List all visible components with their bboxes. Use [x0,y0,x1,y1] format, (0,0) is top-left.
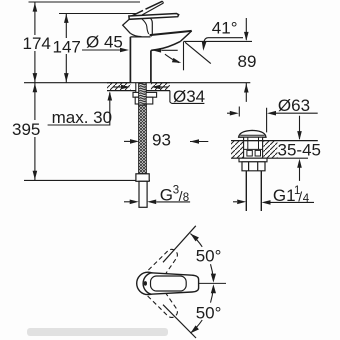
hose tube [139,181,147,207]
deck right step to label [170,91,172,104]
lever handle (solid) [129,14,179,20]
outlet vertical ext [183,42,185,71]
svg-text:41°: 41° [212,19,238,38]
washer [133,92,157,97]
ext line 147 top (y=13.5) [59,13,137,15]
deck ext line (y=82.7) [24,82,250,84]
threaded rod [139,83,147,105]
svg-text:Ø63: Ø63 [278,96,310,115]
solid lever top view [137,272,159,294]
lever butt cap [123,19,131,33]
svg-text:50°: 50° [196,303,222,322]
lower arc [211,288,214,303]
svg-text:8: 8 [183,192,189,204]
svg-text:35-45: 35-45 [278,141,321,160]
spout arc arrow [165,54,179,62]
spout [150,31,192,35]
ext line top (y=2) [29,1,141,3]
arrowheads 174/147/395 [33,3,69,180]
dim arrows at body base [113,86,121,88]
stream diagonal [185,42,211,63]
base right edge [150,18,152,36]
hose end nut [136,174,149,182]
svg-text:93: 93 [152,131,171,150]
locknut [242,162,265,171]
dim 174 line [34,2,36,83]
hatched band [107,83,130,91]
svg-text:/: / [298,188,302,204]
upper arc [190,234,202,247]
svg-text:G: G [160,186,173,205]
dashed lever up position [140,245,182,290]
svg-text:50°: 50° [196,246,222,265]
outlet horizontal ext line [184,40,253,42]
dim 395 line [34,83,36,181]
cap dome [239,130,266,137]
svg-text:147: 147 [53,38,81,57]
handle base bottom [130,33,141,36]
centerline [199,282,226,284]
braided hose [139,105,147,174]
dashed lever down position [140,277,182,322]
hose-end ext line (y=180.4) [24,179,150,181]
body column [130,37,151,83]
tailpipe [246,171,261,211]
svg-text:395: 395 [12,120,40,139]
cartridge S-curve [142,19,149,35]
nut [135,97,153,104]
neck collar [244,137,263,140]
svg-text:174: 174 [23,34,51,53]
spout arrow (left) [161,49,177,51]
legs [163,226,196,262]
svg-text:max. 30: max. 30 [52,108,112,127]
body top edge [130,36,150,38]
shank sides [136,83,146,93]
deck band [231,141,244,159]
waste body in hole [244,141,263,159]
dim 147 line [65,13,67,82]
svg-text:Ø 45: Ø 45 [86,33,123,52]
svg-text:4: 4 [303,193,310,205]
raised lever (thin lines) [131,1,164,16]
washer under deck [239,158,267,162]
svg-text:G1: G1 [273,186,296,205]
svg-text:89: 89 [238,52,257,71]
